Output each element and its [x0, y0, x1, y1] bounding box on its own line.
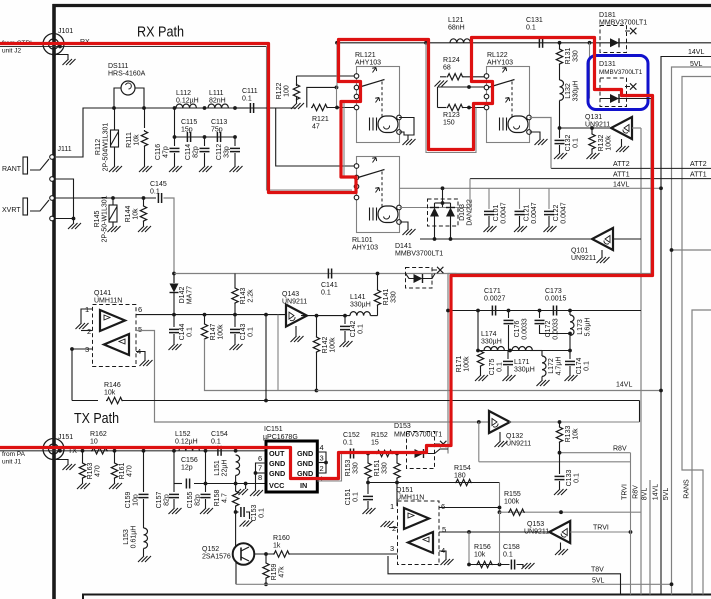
svg-text:2P-50-W1L301: 2P-50-W1L301	[101, 195, 108, 242]
node row2 b	[508, 349, 512, 353]
svg-text:R146: R146	[104, 382, 121, 389]
svg-text:R112: R112	[95, 139, 102, 155]
wire mid row	[174, 273, 457, 275]
svg-text:75p: 75p	[211, 126, 223, 133]
node TX a	[81, 449, 85, 453]
capacitor C133	[559, 453, 561, 474]
node R132	[590, 126, 594, 130]
resistor R121	[311, 104, 328, 110]
svg-text:R159: R159	[271, 564, 278, 581]
node TX f	[234, 449, 238, 453]
svg-text:R147: R147	[210, 324, 217, 341]
svg-text:L132: L132	[565, 83, 572, 99]
ground C114	[199, 166, 212, 172]
capacitor C116	[174, 108, 176, 146]
wire R122 row	[297, 75, 357, 77]
ground Q151 pin2	[381, 521, 394, 527]
svg-text:C122: C122	[553, 205, 560, 222]
capacitor C131	[538, 38, 540, 48]
svg-text:C132: C132	[565, 135, 572, 152]
svg-text:15p: 15p	[181, 126, 193, 133]
svg-text:R156: R156	[474, 544, 491, 551]
lamp DS111	[121, 81, 135, 95]
ground IC151 left	[250, 490, 263, 496]
wire R121 underlay	[336, 87, 338, 107]
svg-text:C175: C175	[489, 359, 496, 376]
ground C101	[484, 226, 497, 232]
svg-text:33p: 33p	[223, 146, 230, 158]
svg-text:C115: C115	[181, 119, 197, 126]
wire Q151 pin2	[389, 527, 398, 529]
transistor Q151 elements	[404, 508, 429, 529]
svg-text:7: 7	[258, 464, 262, 473]
resistor R171	[477, 350, 483, 367]
svg-text:0.1: 0.1	[211, 438, 221, 445]
svg-text:D141: D141	[395, 243, 412, 250]
ground C144	[169, 344, 182, 350]
svg-text:C155: C155	[187, 492, 194, 509]
svg-text:MMBV3700LT1: MMBV3700LT1	[395, 250, 443, 257]
svg-text:10p: 10p	[132, 494, 139, 506]
svg-text:C158: C158	[503, 544, 520, 551]
svg-text:0.1: 0.1	[186, 327, 193, 337]
svg-text:100: 100	[283, 85, 290, 97]
wire ATT1 line	[470, 178, 711, 180]
svg-text:C176: C176	[514, 321, 521, 338]
svg-text:R163: R163	[87, 463, 94, 480]
svg-text:10k: 10k	[572, 428, 579, 440]
resistor R144	[143, 198, 145, 205]
svg-text:RL122: RL122	[487, 52, 508, 59]
ground Q101	[597, 257, 610, 263]
capacitor C154	[217, 446, 219, 456]
node C142 top	[343, 314, 347, 318]
svg-text:GND: GND	[297, 459, 313, 468]
vertical rail from Q131 output	[640, 128, 642, 595]
capacitor C112	[234, 137, 236, 146]
node 14VL lower join	[659, 389, 663, 393]
connector J151	[43, 439, 64, 460]
ground Q151 pin4	[441, 559, 454, 565]
capacitor C101	[488, 188, 490, 209]
svg-text:C143: C143	[240, 324, 247, 341]
svg-text:0.0047: 0.0047	[560, 202, 567, 224]
svg-text:C157: C157	[156, 492, 163, 509]
svg-text:0.1: 0.1	[573, 473, 580, 483]
diode D103b	[450, 203, 452, 207]
svg-text:0.0027: 0.0027	[484, 295, 506, 302]
capacitor C156	[174, 483, 182, 485]
capacitor C152	[349, 449, 351, 459]
svg-text:UN9211: UN9211	[571, 255, 596, 262]
svg-text:4: 4	[320, 443, 324, 452]
relay RL122	[487, 67, 530, 143]
svg-text:D103: D103	[459, 204, 466, 221]
node D103 top	[441, 186, 445, 190]
jack XVRT	[23, 198, 28, 215]
svg-text:0.1: 0.1	[357, 324, 364, 334]
wire right-edge stub y250	[672, 249, 711, 251]
transistor-diode D103 box	[428, 199, 459, 226]
svg-text:0.12µH: 0.12µH	[175, 438, 198, 445]
wire RL122 coil bot	[530, 132, 541, 139]
svg-text:82p: 82p	[192, 146, 199, 158]
node C113 r	[233, 135, 237, 139]
svg-text:J151: J151	[58, 434, 73, 441]
node D103a out	[433, 237, 437, 241]
svg-text:0.0015: 0.0015	[545, 295, 567, 302]
svg-text:4.7µH: 4.7µH	[555, 357, 562, 376]
ground J151	[63, 464, 76, 470]
inductor L141	[350, 312, 370, 316]
node pin6 d	[264, 313, 268, 317]
svg-text:330µH: 330µH	[514, 366, 535, 373]
svg-text:2SA1576: 2SA1576	[202, 553, 231, 560]
ground C116	[169, 166, 182, 172]
capacitor C141	[327, 269, 329, 279]
svg-text:D181: D181	[599, 12, 616, 19]
svg-text:unit J1: unit J1	[2, 459, 22, 466]
svg-text:R132: R132	[598, 135, 605, 152]
node C158	[498, 563, 502, 567]
svg-text:6: 6	[258, 454, 262, 463]
wire IC151 in	[317, 454, 341, 482]
resistor R141	[371, 315, 378, 317]
capacitor C143	[234, 315, 236, 327]
ground jack shield	[68, 223, 81, 229]
svg-text:C121: C121	[524, 205, 531, 222]
wire Q141 pin5 run	[136, 331, 489, 423]
diode D131	[600, 98, 651, 100]
svg-text:5.6µH: 5.6µH	[584, 318, 591, 337]
ground R144	[138, 226, 151, 232]
wire Q153 gnd	[560, 543, 562, 550]
node XVRT a	[111, 196, 115, 200]
svg-text:6: 6	[441, 502, 445, 511]
wire ATT2 line	[551, 167, 711, 169]
wire Q141 pin3	[72, 348, 93, 350]
svg-text:5: 5	[138, 325, 142, 334]
node RL122 row2	[467, 85, 471, 89]
svg-text:0.61µH: 0.61µH	[130, 526, 137, 549]
varistor R112	[114, 108, 116, 130]
transistor Q141 box	[93, 305, 137, 367]
wire Q143 out	[301, 315, 350, 317]
ground C155	[200, 508, 213, 514]
label C152 nodes	[366, 452, 370, 456]
op-amp Q132	[489, 411, 510, 433]
node row1 d	[538, 309, 542, 313]
svg-text:Q131: Q131	[585, 114, 602, 121]
svg-text:R124: R124	[443, 57, 460, 64]
svg-text:Q101: Q101	[571, 248, 588, 255]
capacitor C144	[173, 315, 175, 327]
svg-text:ATT2: ATT2	[613, 161, 630, 168]
svg-text:D153: D153	[394, 423, 411, 430]
ground R163	[77, 483, 90, 489]
wire RL122 lower link	[426, 43, 476, 153]
svg-text:from PA: from PA	[2, 451, 26, 458]
inductor L174	[484, 347, 504, 351]
node TX d	[172, 449, 176, 453]
node top feed mid	[424, 41, 428, 45]
svg-text:C174: C174	[576, 358, 583, 375]
svg-text:5VL: 5VL	[592, 578, 605, 585]
svg-text:330: 330	[352, 462, 359, 474]
relay RL101	[357, 157, 400, 233]
node 14VL joins rail	[659, 186, 663, 190]
svg-text:330: 330	[390, 291, 397, 303]
node jack shield	[72, 217, 76, 221]
inductor L153	[144, 528, 148, 548]
transistor-diode D153 box	[407, 432, 435, 469]
resistor R111	[144, 108, 146, 128]
red highlighted TX-RX signal path	[0, 38, 653, 479]
node row2 a	[476, 349, 480, 353]
node filter a	[112, 106, 116, 110]
svg-text:Q153: Q153	[527, 521, 544, 528]
svg-text:3: 3	[320, 454, 324, 463]
wire R171 link	[477, 311, 479, 351]
svg-text:C151: C151	[345, 489, 352, 506]
svg-text:R162: R162	[90, 431, 107, 438]
diode D153	[408, 453, 414, 455]
svg-text:330µH: 330µH	[572, 81, 579, 102]
node row1 c	[507, 309, 511, 313]
vertical rail right outer	[692, 310, 711, 595]
vertical rail 14VL	[661, 57, 711, 595]
capacitor C158	[510, 560, 512, 570]
svg-text:D131: D131	[599, 61, 616, 68]
inductor L112	[176, 104, 196, 108]
svg-text:100k: 100k	[329, 337, 336, 353]
node R141 top	[376, 272, 380, 276]
svg-text:C131: C131	[526, 17, 543, 24]
svg-text:GND: GND	[297, 449, 313, 458]
svg-text:C171: C171	[484, 288, 501, 295]
wire IC151 vcc gnd leg	[245, 484, 247, 490]
svg-text:C111: C111	[242, 88, 258, 95]
svg-text:2: 2	[320, 464, 324, 473]
wire RX input grey underlay	[0, 46, 267, 48]
svg-text:C113: C113	[211, 119, 227, 126]
svg-text:R153: R153	[345, 460, 352, 477]
svg-text:R158: R158	[214, 490, 221, 507]
svg-text:5VL: 5VL	[690, 61, 703, 68]
node Q141 pin3	[70, 347, 74, 351]
svg-text:TRVI: TRVI	[622, 484, 629, 500]
svg-text:RL121: RL121	[355, 52, 376, 59]
ground R161	[109, 483, 122, 489]
node TX e	[204, 449, 208, 453]
wire TRVI drop	[478, 422, 480, 462]
svg-text:0.1: 0.1	[352, 492, 359, 502]
capacitor C155	[205, 451, 207, 492]
svg-text:330µH: 330µH	[481, 338, 502, 345]
ground Q141 pin2	[76, 323, 89, 329]
ground C133	[554, 489, 567, 495]
svg-text:R142: R142	[322, 337, 329, 354]
svg-text:ATT1: ATT1	[613, 172, 630, 179]
svg-text:J111: J111	[58, 146, 72, 153]
node R8V	[558, 451, 562, 455]
svg-text:C116: C116	[155, 144, 162, 160]
wire Q152 emitter	[235, 562, 237, 584]
node XVRT b	[142, 196, 146, 200]
svg-text:68: 68	[443, 64, 451, 71]
capacitor C132	[559, 101, 561, 139]
wire Q131 out	[632, 127, 641, 129]
node R121 lower	[335, 106, 339, 110]
svg-text:2: 2	[392, 524, 396, 533]
svg-text:330: 330	[572, 50, 579, 62]
svg-text:UN9211: UN9211	[585, 121, 610, 128]
transistor Q151 box	[398, 501, 440, 565]
resistor R133	[559, 422, 561, 426]
resistor R159	[265, 554, 267, 562]
svg-text:0.1: 0.1	[526, 24, 536, 31]
wire Q141 pin2	[81, 330, 93, 332]
svg-text:L173: L173	[577, 319, 584, 335]
svg-text:AHY103: AHY103	[355, 59, 381, 66]
svg-text:T8V: T8V	[591, 567, 604, 574]
svg-text:2P-504W1L301: 2P-504W1L301	[102, 123, 109, 172]
pin J111-1	[50, 155, 55, 160]
svg-text:0.0033: 0.0033	[521, 318, 528, 340]
ground C175	[503, 375, 516, 381]
svg-text:68nH: 68nH	[448, 24, 465, 31]
node pin6 c	[233, 313, 237, 317]
vertical rail third	[682, 77, 711, 595]
ground IC151 vcc leg	[235, 489, 248, 495]
ground R132	[587, 153, 600, 159]
wire Q152 out	[254, 553, 273, 555]
wire R8V	[560, 452, 631, 454]
svg-text:R144: R144	[125, 206, 132, 223]
svg-text:0.1: 0.1	[572, 138, 579, 148]
node R159 bot	[264, 582, 268, 586]
resistor R146 loop	[71, 349, 73, 401]
relay RL121	[357, 67, 400, 143]
op-amp Q153	[549, 521, 570, 543]
capacitor C142	[344, 316, 346, 324]
svg-text:TX Path: TX Path	[74, 410, 119, 427]
svg-text:47k: 47k	[278, 566, 285, 578]
ground RL101 coil	[403, 229, 416, 235]
wire J101 shield	[54, 55, 68, 60]
pin J111-4	[50, 216, 55, 221]
svg-text:150: 150	[443, 119, 455, 126]
svg-text:0.1: 0.1	[343, 439, 353, 446]
svg-text:R143: R143	[240, 288, 247, 305]
svg-text:0.0033: 0.0033	[552, 318, 559, 340]
wire Q132 gnd	[499, 432, 501, 441]
inductor L172	[542, 356, 546, 376]
svg-text:470: 470	[126, 465, 133, 477]
svg-text:0.12µH: 0.12µH	[176, 97, 199, 104]
wire 14VL lower	[317, 390, 662, 392]
node Q152 out	[264, 552, 268, 556]
ground Q153	[555, 549, 568, 555]
resistor R122	[296, 76, 298, 86]
svg-text:0.1: 0.1	[583, 361, 590, 371]
pin J111-2	[50, 177, 55, 182]
node row2 c	[568, 349, 572, 353]
wire bias row	[368, 482, 500, 484]
svg-text:R111: R111	[126, 132, 133, 148]
svg-text:C154: C154	[211, 431, 228, 438]
svg-text:L121: L121	[448, 17, 464, 24]
wire Q143 gnd	[295, 326, 297, 336]
svg-text:R121: R121	[312, 116, 329, 123]
wire D103 stem	[442, 188, 444, 207]
wire RL121 feed drop	[336, 43, 338, 88]
resistor R131	[559, 43, 561, 48]
node D181 in	[588, 41, 592, 45]
resistor R163	[82, 451, 84, 462]
node row1 a	[446, 309, 450, 313]
unused mark D153	[435, 443, 440, 445]
node filter b	[142, 106, 146, 110]
wire Q131 input	[560, 127, 611, 129]
resistor R155	[508, 509, 525, 515]
wire RL121 coil top	[399, 118, 414, 140]
svg-text:MA77: MA77	[186, 286, 193, 304]
ground R112	[109, 166, 122, 172]
wire jack shield	[54, 179, 74, 223]
ground R145	[108, 226, 121, 232]
inductor L151	[236, 455, 240, 475]
transistor-diode D181 box	[600, 26, 627, 53]
svg-text:14VL: 14VL	[653, 484, 660, 500]
ground R122	[291, 103, 304, 109]
wire RL121 coil bot	[399, 132, 408, 135]
svg-text:UMH11N: UMH11N	[94, 297, 122, 304]
ground Q143	[291, 336, 304, 342]
svg-text:0.1: 0.1	[258, 508, 265, 518]
svg-text:L141: L141	[350, 294, 366, 301]
svg-text:IN: IN	[300, 481, 307, 490]
wire C115 row	[175, 136, 236, 138]
wire R155 row	[500, 511, 642, 513]
wire Q141 pin4	[136, 352, 145, 361]
capacitor C176	[508, 311, 510, 319]
wire filter row2	[478, 350, 570, 352]
inductor L171	[512, 347, 532, 351]
wire RANT to filter	[56, 108, 296, 157]
svg-text:Q132: Q132	[506, 433, 523, 440]
ground Q131	[616, 146, 629, 152]
svg-text:MMBV3700LT1: MMBV3700LT1	[394, 432, 442, 439]
ground C121	[514, 226, 527, 232]
svg-text:5VL: 5VL	[663, 488, 670, 501]
svg-text:GND: GND	[297, 469, 313, 478]
svg-text:R160: R160	[273, 535, 290, 542]
node TX b	[113, 449, 117, 453]
node R146 join	[264, 399, 268, 403]
svg-text:82p: 82p	[163, 494, 170, 506]
wire Q101 row	[420, 238, 641, 240]
svg-text:C133: C133	[566, 470, 573, 487]
svg-text:R161: R161	[119, 463, 126, 480]
ground C153	[240, 521, 253, 527]
svg-text:UN9211: UN9211	[524, 529, 549, 536]
ground R124	[435, 81, 448, 87]
wire R123 link	[437, 87, 439, 108]
node top feed left	[335, 41, 339, 45]
capacitor C174	[569, 351, 571, 360]
svg-text:J101: J101	[58, 28, 73, 35]
